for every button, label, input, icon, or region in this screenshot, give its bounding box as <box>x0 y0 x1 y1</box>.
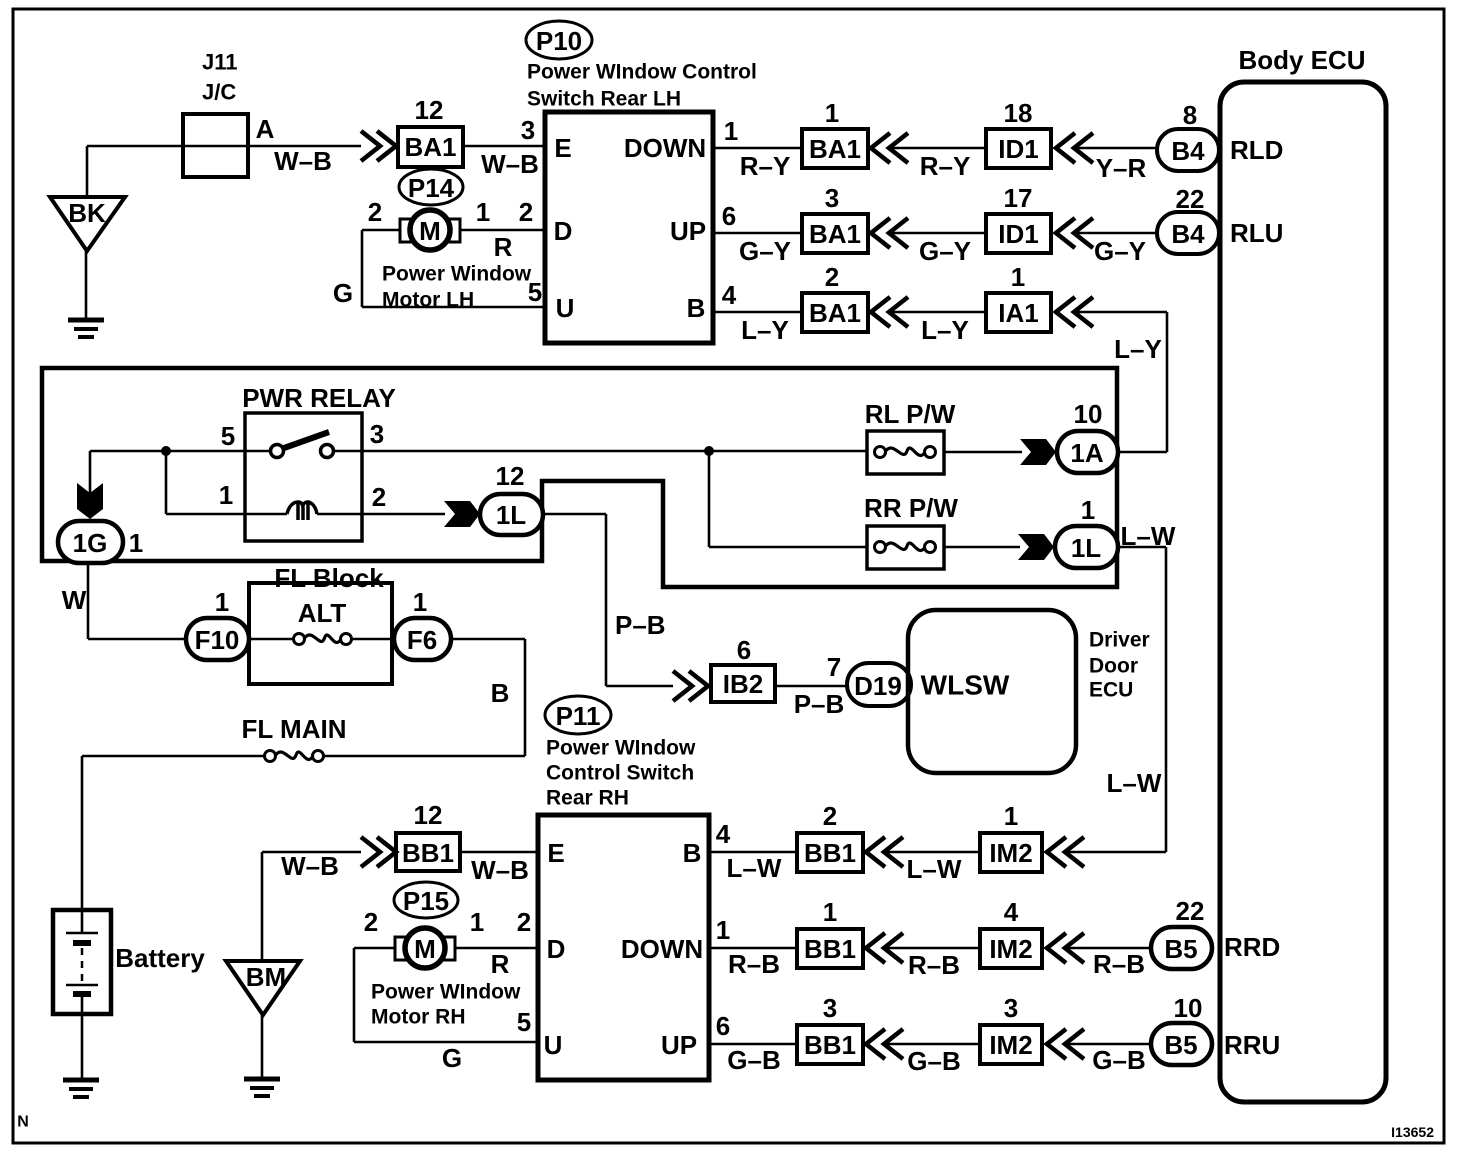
svg-text:10: 10 <box>1074 399 1103 429</box>
svg-text:L–Y: L–Y <box>741 315 789 345</box>
svg-text:FL MAIN: FL MAIN <box>242 714 347 744</box>
svg-text:1L: 1L <box>496 500 526 530</box>
connector chevrons into BA1 <box>361 131 380 161</box>
wire row U to B5 <box>1066 1043 1151 1046</box>
svg-text:6: 6 <box>737 635 751 665</box>
wire row3 L-Y riser to 1A <box>1075 311 1167 314</box>
svg-text:PWR RELAY: PWR RELAY <box>242 383 396 413</box>
svg-text:B: B <box>491 678 510 708</box>
svg-text:2: 2 <box>364 907 378 937</box>
svg-text:RRD: RRD <box>1224 932 1280 962</box>
svg-text:G–Y: G–Y <box>919 236 971 266</box>
svg-text:ALT: ALT <box>298 598 347 628</box>
wire IB2 to D19 <box>775 685 849 688</box>
wire P11 row 1 <box>709 851 797 854</box>
svg-text:2: 2 <box>517 907 531 937</box>
svg-text:ECU: ECU <box>1089 679 1133 702</box>
svg-text:U: U <box>544 1030 563 1060</box>
svg-text:Driver: Driver <box>1089 629 1150 652</box>
svg-text:W–B: W–B <box>281 851 339 881</box>
connector chevrons into BB1 <box>361 837 380 867</box>
callout P11 <box>545 696 611 734</box>
svg-text:Power WIndow: Power WIndow <box>546 737 696 760</box>
svg-text:Rear RH: Rear RH <box>546 787 629 810</box>
svg-text:1: 1 <box>219 480 233 510</box>
black arrow into 1L <box>444 501 480 527</box>
connector 1L (pin 1) right <box>1055 526 1118 568</box>
connector IB2 (cavity 6) <box>711 665 775 702</box>
wire 1L to L-W riser <box>1118 546 1166 549</box>
svg-text:G–B: G–B <box>727 1045 780 1075</box>
svg-text:L–W: L–W <box>1107 768 1162 798</box>
svg-text:L–Y: L–Y <box>921 315 969 345</box>
svg-text:B4: B4 <box>1171 136 1205 166</box>
switch box P11 Power Window Control Switch Rear RH <box>538 815 709 1080</box>
wire main feed row (pin5/pin3) <box>90 450 245 453</box>
svg-text:D: D <box>547 934 566 964</box>
ground symbol below battery <box>63 1078 99 1083</box>
ground triangle BM <box>261 852 264 961</box>
svg-text:DOWN: DOWN <box>624 133 706 163</box>
svg-text:Power WIndow Control: Power WIndow Control <box>527 61 757 84</box>
switch box P10 Power Window Control Switch Rear LH <box>545 112 713 343</box>
svg-text:F10: F10 <box>195 625 240 655</box>
svg-text:I13652: I13652 <box>1391 1124 1434 1140</box>
wire P11 row 2 <box>709 947 797 950</box>
wire <box>890 232 986 235</box>
connector chevrons after BA1 <box>871 218 890 248</box>
svg-text:R: R <box>494 232 513 262</box>
svg-text:DOWN: DOWN <box>621 934 703 964</box>
svg-text:2: 2 <box>519 197 533 227</box>
wire junction B down to RR fuse <box>708 451 711 547</box>
svg-text:G–B: G–B <box>1092 1045 1145 1075</box>
relay coil <box>245 513 287 516</box>
svg-text:Motor RH: Motor RH <box>371 1006 465 1029</box>
ground triangle BK <box>50 197 125 251</box>
connector IM2 (cavity 4) P11 row 2 <box>980 929 1042 968</box>
svg-text:P–B: P–B <box>794 689 845 719</box>
junction dot B <box>704 446 714 456</box>
connector B5 pin 22 RRD <box>1151 927 1212 969</box>
svg-text:RLD: RLD <box>1230 135 1283 165</box>
svg-text:1: 1 <box>1011 262 1025 292</box>
svg-text:4: 4 <box>722 280 737 310</box>
svg-text:IM2: IM2 <box>989 1030 1032 1060</box>
svg-text:Power Window: Power Window <box>382 263 532 286</box>
svg-text:L–W: L–W <box>907 854 962 884</box>
Body ECU box <box>1220 82 1386 1102</box>
svg-text:Motor LH: Motor LH <box>382 289 474 312</box>
svg-text:3: 3 <box>1004 993 1018 1023</box>
svg-text:R–B: R–B <box>728 949 780 979</box>
svg-text:B5: B5 <box>1164 1030 1197 1060</box>
connector BB1 (cavity 2) P11 row 1 <box>797 833 863 872</box>
svg-text:4: 4 <box>716 819 731 849</box>
svg-text:4: 4 <box>1004 897 1019 927</box>
wire <box>890 311 986 314</box>
connector ID1 (cavity 17) row 2 <box>986 214 1051 253</box>
power window motor RH (M) <box>406 947 538 950</box>
wire 1L to IB2 (P-B) <box>543 513 606 516</box>
connector chevrons after BB1 P11 <box>866 933 885 963</box>
svg-text:G–Y: G–Y <box>1094 236 1146 266</box>
connector chevrons into IB2 <box>673 671 692 701</box>
svg-text:RRU: RRU <box>1224 1030 1280 1060</box>
junction dot A <box>161 446 171 456</box>
svg-text:8: 8 <box>1183 100 1197 130</box>
wire row D to B5 <box>1066 947 1151 950</box>
svg-text:ID1: ID1 <box>998 219 1038 249</box>
callout P10 <box>526 21 592 59</box>
svg-text:3: 3 <box>823 993 837 1023</box>
wire relay pin2 to 1L <box>362 513 445 516</box>
svg-text:1: 1 <box>413 587 427 617</box>
svg-text:L–Y: L–Y <box>1114 334 1162 364</box>
connector chevrons after IM2 P11 <box>1047 837 1066 867</box>
svg-text:M: M <box>419 216 441 246</box>
connector chevrons after BB1 P11 <box>866 837 885 867</box>
wire P10 row 3 <box>713 311 802 314</box>
connector IM2 (cavity 3) P11 row 3 <box>980 1025 1042 1064</box>
svg-text:BA1: BA1 <box>809 134 861 164</box>
wire <box>885 851 980 854</box>
svg-text:ID1: ID1 <box>998 134 1038 164</box>
connector BB1 (cavity 1) P11 row 2 <box>797 929 863 968</box>
svg-text:Door: Door <box>1089 655 1138 678</box>
L-W riser down to P11 row B <box>1165 547 1168 852</box>
svg-text:IA1: IA1 <box>998 298 1038 328</box>
svg-text:3: 3 <box>370 419 384 449</box>
connector chevrons after BB1 P11 <box>866 1029 885 1059</box>
svg-text:P10: P10 <box>536 26 582 56</box>
svg-text:1: 1 <box>470 907 484 937</box>
junction box J11 J/C <box>183 114 248 177</box>
svg-text:2: 2 <box>372 482 386 512</box>
svg-text:P14: P14 <box>408 173 455 203</box>
svg-text:UP: UP <box>670 216 706 246</box>
svg-text:UP: UP <box>661 1030 697 1060</box>
connector BA1 (cavity 1) row 1 <box>802 129 868 168</box>
svg-text:6: 6 <box>716 1011 730 1041</box>
svg-text:G: G <box>442 1043 462 1073</box>
svg-text:RR P/W: RR P/W <box>864 493 958 523</box>
wire P10 row 2 <box>713 232 802 235</box>
svg-text:BB1: BB1 <box>804 1030 856 1060</box>
svg-text:BB1: BB1 <box>804 934 856 964</box>
svg-text:M: M <box>414 934 436 964</box>
svg-text:5: 5 <box>221 421 235 451</box>
svg-text:P–B: P–B <box>615 610 666 640</box>
svg-text:L–W: L–W <box>1121 521 1176 551</box>
svg-text:5: 5 <box>517 1007 531 1037</box>
svg-text:IB2: IB2 <box>723 669 763 699</box>
connector B4 pin 8 RLD <box>1157 129 1219 171</box>
wire junction to relay coil pin1 <box>165 451 168 514</box>
svg-text:1: 1 <box>716 915 730 945</box>
svg-text:3: 3 <box>521 115 535 145</box>
svg-text:BK: BK <box>68 198 106 228</box>
svg-text:B5: B5 <box>1164 934 1197 964</box>
wire 1A to riser <box>1118 451 1167 454</box>
svg-text:Switch Rear LH: Switch Rear LH <box>527 88 681 111</box>
connector B5 pin 10 RRU <box>1151 1023 1212 1065</box>
callout P14 <box>399 169 463 205</box>
fuse ALT <box>249 638 294 641</box>
svg-text:RL P/W: RL P/W <box>865 399 956 429</box>
connector chevrons after ID1 <box>1056 133 1075 163</box>
connector F6 <box>394 618 451 660</box>
svg-text:7: 7 <box>827 652 841 682</box>
svg-text:1: 1 <box>724 116 738 146</box>
connector BA1 (cavity 3) row 2 <box>802 214 868 253</box>
svg-text:J11: J11 <box>202 50 238 75</box>
svg-text:E: E <box>554 133 571 163</box>
wire P11 row 3 <box>709 1043 797 1046</box>
connector chevrons after ID1 <box>1056 218 1075 248</box>
svg-text:12: 12 <box>496 461 525 491</box>
svg-text:G–Y: G–Y <box>739 236 791 266</box>
svg-text:P15: P15 <box>403 886 449 916</box>
svg-text:1: 1 <box>1081 495 1095 525</box>
svg-text:F6: F6 <box>407 625 437 655</box>
svg-text:12: 12 <box>414 800 443 830</box>
wire BA1 to pin E <box>463 145 545 148</box>
svg-text:B4: B4 <box>1171 219 1205 249</box>
svg-text:1: 1 <box>129 528 143 558</box>
relay box PWR RELAY <box>245 413 362 541</box>
connector BB1 (cavity 12) <box>396 833 460 871</box>
svg-text:1: 1 <box>823 897 837 927</box>
svg-text:6: 6 <box>722 201 736 231</box>
svg-text:IM2: IM2 <box>989 934 1032 964</box>
svg-text:1: 1 <box>476 197 490 227</box>
connector chevrons after IA1 <box>1056 297 1075 327</box>
svg-text:22: 22 <box>1176 896 1205 926</box>
junction block J/B No.1 outline <box>42 368 1117 587</box>
svg-text:Y–R: Y–R <box>1096 153 1147 183</box>
connector BA1 (cavity 2) row 3 <box>802 293 868 332</box>
svg-text:J/C: J/C <box>202 80 236 105</box>
svg-text:E: E <box>547 838 564 868</box>
connector D19 <box>847 663 911 706</box>
ground symbol below BM <box>244 1077 280 1082</box>
svg-text:R: R <box>491 949 510 979</box>
wire <box>885 947 980 950</box>
svg-text:R–B: R–B <box>908 950 960 980</box>
wire battery to ground <box>81 997 84 1079</box>
wire fuse to 1A <box>944 451 1022 454</box>
svg-text:FL Block: FL Block <box>274 563 384 593</box>
relay contact <box>245 450 270 453</box>
wire FL MAIN to battery <box>81 756 84 912</box>
svg-text:W: W <box>62 585 87 615</box>
connector ID1 (cavity 18) row 1 <box>986 129 1051 168</box>
connector BB1 (cavity 3) P11 row 3 <box>797 1025 863 1064</box>
svg-text:12: 12 <box>415 95 444 125</box>
svg-text:W–B: W–B <box>481 149 539 179</box>
battery <box>53 910 111 1014</box>
svg-text:L–W: L–W <box>727 853 782 883</box>
svg-text:3: 3 <box>825 183 839 213</box>
wire fuse to 1L <box>944 546 1020 549</box>
svg-text:WLSW: WLSW <box>921 670 1010 701</box>
svg-text:1L: 1L <box>1071 533 1101 563</box>
svg-text:BA1: BA1 <box>809 298 861 328</box>
svg-text:BB1: BB1 <box>804 838 856 868</box>
connector 1A (pin 10) <box>1057 431 1118 473</box>
connector F10 <box>186 618 249 660</box>
svg-text:Control Switch: Control Switch <box>546 762 694 785</box>
svg-text:1: 1 <box>215 587 229 617</box>
svg-text:BA1: BA1 <box>404 132 456 162</box>
svg-text:10: 10 <box>1174 993 1203 1023</box>
power window motor LH (M) <box>411 229 545 232</box>
svg-text:BM: BM <box>246 962 286 992</box>
svg-text:1G: 1G <box>73 528 108 558</box>
svg-text:Body ECU: Body ECU <box>1238 45 1365 75</box>
svg-text:1: 1 <box>1004 801 1018 831</box>
svg-text:Power WIndow: Power WIndow <box>371 981 521 1004</box>
connector IM2 (cavity 1) P11 row 1 <box>980 833 1042 872</box>
svg-text:R–Y: R–Y <box>920 151 971 181</box>
wire BK to J11 to chevrons <box>86 146 89 197</box>
svg-text:IM2: IM2 <box>989 838 1032 868</box>
svg-text:17: 17 <box>1004 183 1033 213</box>
svg-text:W–B: W–B <box>274 146 332 176</box>
wire down to 1G with black arrow <box>89 451 92 494</box>
svg-text:D: D <box>554 216 573 246</box>
svg-text:BA1: BA1 <box>809 219 861 249</box>
svg-text:W–B: W–B <box>471 855 529 885</box>
svg-text:2: 2 <box>368 197 382 227</box>
connector BA1 (cavity 12) <box>398 127 463 167</box>
svg-text:BB1: BB1 <box>402 838 454 868</box>
svg-text:P11: P11 <box>556 701 601 731</box>
svg-text:1A: 1A <box>1070 438 1103 468</box>
connector IA1 (cavity 1) row 3 <box>986 293 1051 332</box>
svg-text:D19: D19 <box>854 671 902 701</box>
connector chevrons after BA1 <box>871 133 890 163</box>
connector 1L (cavity 12) <box>480 494 543 535</box>
connector chevrons after IM2 P11 <box>1047 1029 1066 1059</box>
wire F6 down to FL MAIN (B) <box>451 638 525 641</box>
wire 1G down to F10 (W) <box>87 562 90 639</box>
svg-text:2: 2 <box>825 262 839 292</box>
wire row1 to B4 <box>1075 147 1157 150</box>
svg-text:1: 1 <box>825 98 839 128</box>
svg-text:Battery: Battery <box>115 943 205 973</box>
wire BB1 to pin E <box>460 851 538 854</box>
svg-text:N: N <box>17 1114 29 1131</box>
svg-text:2: 2 <box>823 801 837 831</box>
connector 1G (pin 1) <box>58 521 123 563</box>
wire P10 row 1 <box>713 147 802 150</box>
driver door ECU box WLSW <box>908 610 1076 773</box>
connector B4 pin 22 RLU <box>1157 212 1219 254</box>
svg-text:RLU: RLU <box>1230 218 1283 248</box>
svg-text:R–Y: R–Y <box>740 151 791 181</box>
svg-text:A: A <box>256 114 275 144</box>
svg-text:G–B: G–B <box>907 1046 960 1076</box>
connector chevrons after BA1 <box>871 297 890 327</box>
wire BM riser to BB1 <box>262 851 361 854</box>
svg-text:18: 18 <box>1004 98 1033 128</box>
wire <box>885 1043 980 1046</box>
callout P15 <box>394 882 458 918</box>
wire BM to ground <box>261 1015 264 1078</box>
svg-text:U: U <box>556 293 575 323</box>
wire row2 to B4 <box>1075 232 1157 235</box>
ground symbol below BK <box>85 251 88 319</box>
svg-text:B: B <box>687 293 706 323</box>
connector chevrons after IM2 P11 <box>1047 933 1066 963</box>
wire row B to L-W riser <box>1066 851 1166 854</box>
svg-text:G: G <box>333 278 353 308</box>
svg-text:22: 22 <box>1176 184 1205 214</box>
svg-text:R–B: R–B <box>1093 949 1145 979</box>
svg-text:B: B <box>683 838 702 868</box>
wire <box>890 147 986 150</box>
